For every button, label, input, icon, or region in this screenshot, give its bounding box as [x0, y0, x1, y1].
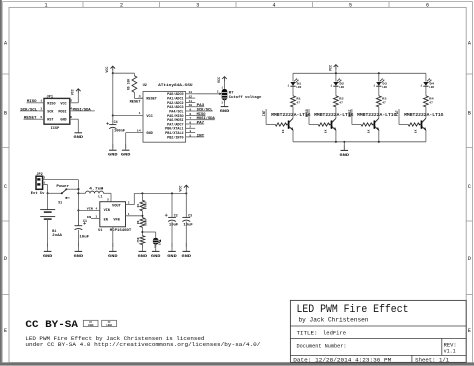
svg-text:C2: C2 — [174, 213, 178, 217]
svg-text:1M: 1M — [159, 241, 162, 245]
svg-text:LED: LED — [296, 86, 301, 89]
svg-text:GND: GND — [138, 255, 148, 259]
resistor R2 47 — [334, 96, 339, 107]
transistor Q1 MMBT2222A-LT1G — [271, 114, 311, 131]
svg-text:9: 9 — [189, 107, 191, 111]
wire PA0 to trimmer wiper — [195, 93, 219, 95]
LED D3 — [373, 78, 387, 89]
LED D2 — [330, 78, 344, 89]
node battery junction — [47, 192, 49, 194]
svg-text:1: 1 — [43, 181, 45, 184]
wire cell 3 anode — [378, 73, 380, 81]
wire to R5 — [113, 72, 135, 74]
svg-text:RESET: RESET — [24, 117, 37, 121]
svg-text:6: 6 — [70, 115, 72, 119]
svg-text:VCC: VCC — [180, 186, 184, 192]
ground (JP1) — [77, 129, 79, 133]
svg-text:1: 1 — [288, 85, 290, 88]
wire cell 2 collector — [335, 107, 337, 118]
wire cell 4 emitter — [425, 130, 427, 142]
svg-text:VIN: VIN — [104, 208, 110, 212]
wire JP1 VCC — [70, 102, 79, 104]
pin 3 — [39, 110, 44, 112]
wire + net label PA7 (cell 4) — [398, 109, 400, 125]
svg-text:ICSP: ICSP — [51, 127, 60, 131]
svg-text:S1: S1 — [58, 200, 62, 204]
pin 13 — [186, 93, 196, 95]
resistor R1 47 — [291, 96, 296, 107]
svg-text:ledFire: ledFire — [323, 329, 346, 336]
svg-text:75K: 75K — [137, 237, 140, 243]
wire + net label INT (cell 1) — [265, 109, 267, 125]
svg-text:VIN: VIN — [87, 207, 93, 211]
svg-text:INT: INT — [262, 110, 266, 116]
node VIN junction — [77, 209, 79, 211]
svg-text:976K: 976K — [144, 202, 147, 209]
svg-text:D: D — [4, 256, 7, 262]
wire C2 to ground — [171, 222, 173, 248]
wire battery drop — [47, 193, 49, 209]
svg-text:R7: R7 — [229, 91, 234, 95]
ground (U1) — [112, 243, 114, 252]
svg-text:PA7: PA7 — [197, 120, 205, 124]
power VCC (JP1) — [76, 89, 81, 91]
svg-text:1: 1 — [128, 213, 130, 216]
svg-text:C1: C1 — [83, 219, 87, 223]
svg-text:4.7uH: 4.7uH — [89, 187, 103, 191]
svg-text:1: 1 — [330, 85, 332, 88]
svg-text:3: 3 — [196, 2, 199, 8]
svg-text:VFB: VFB — [113, 218, 119, 222]
svg-text:LOGO: LOGO — [106, 324, 112, 327]
svg-text:LED: LED — [339, 86, 344, 89]
pin 10 — [186, 106, 196, 108]
wire to switch — [48, 192, 62, 194]
svg-text:ATtiny84A-SSU: ATtiny84A-SSU — [158, 83, 193, 88]
power VCC (trimmer) — [224, 81, 226, 89]
svg-text:R5 10K: R5 10K — [126, 79, 130, 91]
wire R4-R6 — [141, 211, 143, 218]
wire cell 3 collector — [378, 107, 380, 118]
wire rail to ground — [343, 142, 345, 150]
svg-text:MOSI: MOSI — [58, 110, 66, 114]
svg-text:U2: U2 — [143, 84, 147, 88]
wire L1 to SW pin — [104, 192, 112, 194]
ground (C4) — [112, 144, 114, 150]
wire trimmer to ground — [155, 245, 157, 247]
svg-text:2: 2 — [217, 91, 219, 94]
battery B1 2xAA — [40, 210, 63, 238]
svg-text:VCC: VCC — [106, 67, 110, 73]
trimmer R7 cutoff voltage — [219, 86, 261, 104]
wire + net label MOSI/SDA — [195, 119, 215, 121]
svg-text:5: 5 — [189, 133, 191, 137]
title block — [290, 300, 466, 363]
svg-text:RST: RST — [47, 119, 53, 123]
wire cell 4 collector — [425, 107, 427, 118]
svg-text:VCC: VCC — [72, 89, 76, 95]
svg-text:PB2/INT0: PB2/INT0 — [167, 135, 183, 139]
svg-text:10uF: 10uF — [169, 222, 179, 226]
svg-text:Sheet: 1/1: Sheet: 1/1 — [415, 356, 450, 363]
svg-text:E: E — [4, 328, 7, 334]
wire VCC rail down — [112, 73, 114, 115]
svg-text:VCC: VCC — [329, 65, 333, 71]
svg-text:4: 4 — [272, 2, 275, 8]
svg-text:EN: EN — [104, 218, 108, 222]
svg-text:1: 1 — [40, 99, 42, 103]
power VCC (LED rail) — [335, 68, 337, 73]
svg-text:Cutoff voltage: Cutoff voltage — [229, 95, 261, 100]
ground (divider) — [141, 243, 143, 252]
wire cell 2 led-resistor — [335, 86, 337, 96]
power VCC (boost output) — [185, 190, 187, 194]
wire emitter rail (LED return) — [293, 141, 426, 143]
svg-text:B: B — [4, 110, 7, 116]
svg-text:2: 2 — [120, 2, 123, 8]
wire cell 2 anode — [335, 73, 337, 81]
ground (trimmer R3) — [155, 243, 157, 252]
svg-text:LED PWM Fire Effect by Jack Ch: LED PWM Fire Effect by Jack Christensen … — [25, 336, 204, 342]
svg-text:1K: 1K — [325, 129, 328, 133]
wire R2 to ground — [141, 245, 143, 247]
switch S1 power — [56, 184, 69, 204]
connector JP1 ICSP header — [44, 95, 70, 130]
wire trimmer to ground — [224, 100, 226, 102]
pin 2 — [186, 127, 196, 129]
svg-text:LED PWM Fire Effect: LED PWM Fire Effect — [297, 304, 409, 316]
LED D4 — [420, 78, 434, 89]
svg-text:1: 1 — [373, 85, 375, 88]
pin 1 — [39, 102, 44, 104]
ground (C2) — [171, 243, 173, 252]
wire to trimmer R3 — [142, 231, 155, 233]
svg-text:LED: LED — [429, 86, 434, 89]
resistor base 1K (cell 3) — [361, 123, 372, 126]
svg-text:5: 5 — [40, 115, 42, 119]
transistor Q2 MMBT2222A-LT1G — [314, 114, 354, 131]
svg-text:1: 1 — [420, 85, 422, 88]
node VCC pin junction — [112, 114, 114, 116]
node rail junction 2 — [335, 72, 337, 74]
resistor R2 75K — [140, 236, 145, 245]
pin 8 — [186, 114, 196, 116]
svg-text:47: 47 — [382, 101, 386, 105]
wire + net label MOSI/SDA — [70, 110, 95, 112]
resistor R6 309K — [140, 218, 145, 228]
node divider top — [141, 192, 143, 194]
LED D1 — [288, 78, 302, 89]
svg-text:Date: 12/28/2014 4:23:36 PM: Date: 12/28/2014 4:23:36 PM — [293, 356, 391, 363]
capacitor C1 10uF — [77, 210, 79, 225]
svg-text:CC BY-SA: CC BY-SA — [25, 320, 78, 331]
svg-text:GND: GND — [151, 255, 161, 259]
svg-text:4: 4 — [139, 94, 141, 98]
svg-text:5: 5 — [349, 2, 352, 8]
svg-text:by Jack Christensen: by Jack Christensen — [299, 317, 369, 324]
power VCC (MCU) — [112, 71, 114, 74]
svg-text:1: 1 — [44, 2, 47, 8]
pin 5 — [39, 118, 44, 120]
svg-text:3: 3 — [96, 216, 98, 219]
resistor R3 47 — [376, 96, 381, 107]
pin 12 — [186, 97, 196, 99]
wire cell 4 led-resistor — [425, 86, 427, 96]
svg-text:14: 14 — [137, 128, 141, 132]
svg-text:C4: C4 — [114, 120, 118, 124]
wire C1 to ground — [77, 230, 79, 247]
svg-text:GND: GND — [60, 119, 66, 123]
node C2 junction — [171, 192, 173, 194]
wire + net label PA3 — [195, 106, 204, 108]
svg-text:VCC: VCC — [60, 102, 66, 106]
resistor R4 976K — [140, 200, 145, 211]
wire JP2 pin1 to battery — [43, 184, 48, 186]
ground (C3) — [185, 243, 187, 252]
svg-text:INT: INT — [197, 133, 205, 137]
svg-text:PA7: PA7 — [395, 110, 399, 116]
wire boost node vertical — [77, 189, 79, 226]
pin 3 (EN) stub — [91, 218, 100, 220]
svg-text:D: D — [468, 256, 471, 262]
wire C4 to ground — [112, 116, 114, 125]
node return junction 2 — [335, 141, 337, 143]
svg-text:VCC: VCC — [146, 115, 152, 119]
svg-text:GND: GND — [146, 132, 152, 136]
svg-text:1K: 1K — [368, 129, 371, 133]
svg-text:EN: EN — [87, 215, 91, 219]
wire cell 2 emitter — [335, 130, 337, 142]
wire + net label SCK/SCL — [20, 110, 39, 112]
ground (C1) — [77, 243, 79, 252]
svg-text:PA4/SCL: PA4/SCL — [169, 109, 183, 113]
svg-text:C3: C3 — [188, 213, 192, 217]
svg-text:R4: R4 — [137, 204, 140, 208]
wire + net label SCK/SCL — [195, 110, 212, 112]
wire U2 GND pin — [126, 132, 143, 134]
svg-text:2: 2 — [43, 176, 45, 179]
wire cell 1 led-resistor — [292, 86, 294, 96]
pin 3 — [186, 132, 196, 134]
resistor base 1K (cell 2) — [318, 123, 329, 126]
svg-text:GND: GND — [220, 110, 230, 114]
inductor L1 4.7uH — [86, 187, 104, 199]
wire JP2 pin2 to boost node — [43, 179, 79, 181]
wire VIN — [78, 209, 99, 211]
node lower divider — [141, 231, 143, 233]
transistor Q4 MMBT2222A-LT1G — [404, 114, 444, 131]
svg-text:1: 1 — [139, 111, 141, 115]
svg-text:SCK/SCL: SCK/SCL — [197, 107, 213, 111]
resistor base 1K (cell 4) — [408, 123, 419, 126]
svg-text:6: 6 — [426, 2, 429, 8]
svg-text:LOGO: LOGO — [88, 324, 94, 327]
svg-text:v1.1: v1.1 — [444, 349, 456, 355]
wire switch to boost node — [66, 188, 78, 190]
svg-text:under CC BY-SA 4.0 http://crea: under CC BY-SA 4.0 http://creativecommon… — [25, 342, 260, 348]
svg-text:3: 3 — [40, 107, 42, 111]
pin 1 (VFB) wire — [126, 215, 143, 217]
svg-text:LED: LED — [382, 86, 387, 89]
wire cell 4 anode — [425, 73, 427, 81]
svg-text:U1: U1 — [98, 229, 102, 233]
svg-text:RESET: RESET — [130, 100, 141, 104]
pin 11 — [186, 101, 196, 103]
wire battery to ground — [47, 219, 49, 247]
svg-text:5: 5 — [107, 199, 109, 202]
node L1 junction — [77, 192, 79, 194]
wire divider drop — [141, 193, 143, 200]
resistor R5 10K — [132, 76, 137, 93]
svg-text:A: A — [4, 40, 7, 46]
node VCC junction — [112, 72, 114, 74]
svg-text:L1: L1 — [98, 195, 102, 199]
ground (trimmer) — [224, 98, 226, 107]
pin 6 — [186, 123, 196, 125]
wire + net label MOSI (cell 3) — [351, 109, 353, 125]
svg-text:47: 47 — [429, 101, 433, 105]
node rail junction 3 — [378, 72, 380, 74]
svg-text:GND: GND — [182, 255, 192, 259]
svg-text:MISO: MISO — [47, 102, 55, 106]
svg-text:GND: GND — [108, 154, 118, 158]
ground (U2) — [125, 144, 127, 150]
svg-text:MOSI: MOSI — [348, 109, 352, 117]
svg-text:TITLE:: TITLE: — [297, 329, 318, 336]
svg-text:10uF: 10uF — [79, 235, 89, 239]
svg-text:1K: 1K — [282, 129, 285, 133]
svg-text:SCK: SCK — [47, 110, 54, 114]
svg-text:47: 47 — [339, 101, 343, 105]
wire U1 GND pin — [112, 227, 114, 247]
wire C3 to ground — [185, 222, 187, 248]
svg-text:GND: GND — [121, 154, 131, 158]
connector JP2 ext 5V — [31, 173, 46, 196]
svg-text:GND: GND — [167, 255, 177, 259]
svg-text:4: 4 — [96, 207, 98, 210]
svg-text:GND: GND — [43, 255, 53, 259]
trimmer R3 — [153, 238, 162, 248]
node return junction 3 — [378, 141, 380, 143]
svg-text:GND: GND — [74, 255, 84, 259]
svg-text:VOUT: VOUT — [112, 204, 121, 208]
pin 5 — [186, 136, 196, 138]
svg-text:309K: 309K — [144, 219, 147, 226]
svg-text:GND: GND — [108, 255, 118, 259]
resistor base 1K (cell 1) — [275, 123, 286, 126]
ground (LED rail) — [343, 146, 345, 151]
svg-text:GND: GND — [74, 136, 84, 140]
svg-text:MISO: MISO — [305, 109, 309, 117]
wire cell 3 emitter — [378, 130, 380, 142]
wire + net label MISO — [27, 102, 39, 104]
svg-text:R6: R6 — [137, 220, 140, 224]
wire cell 3 led-resistor — [378, 86, 380, 96]
svg-text:Power: Power — [56, 184, 69, 189]
wire to L1 — [78, 192, 85, 194]
mcu U2 ATtiny84A-SSU — [143, 83, 194, 142]
svg-text:VCC: VCC — [218, 77, 222, 83]
capacitor C2 10uF — [171, 193, 173, 217]
svg-text:MMBT2222A-LT1G: MMBT2222A-LT1G — [404, 114, 444, 118]
pin 9 — [186, 110, 196, 112]
wire + net label INT — [195, 136, 204, 138]
svg-text:47: 47 — [296, 101, 300, 105]
svg-text:10uF: 10uF — [183, 222, 193, 226]
wire R6 down — [141, 227, 143, 235]
svg-text:2: 2 — [128, 202, 130, 205]
wire + net label PA7 — [195, 123, 204, 125]
wire R5 to RESET pin — [133, 92, 135, 98]
node boost top — [77, 188, 79, 190]
svg-text:RESET: RESET — [146, 97, 157, 101]
svg-text:MISO: MISO — [27, 100, 37, 104]
svg-text:2: 2 — [70, 99, 72, 103]
pin 7 — [186, 119, 196, 121]
svg-text:REV:: REV: — [444, 342, 457, 348]
wire + net label RESET — [24, 118, 39, 120]
resistor R4 47 — [424, 96, 429, 107]
wire VCC to U2 pin1 — [113, 115, 143, 117]
svg-text:MMBT2222A-LT1G: MMBT2222A-LT1G — [357, 114, 397, 118]
svg-text:E: E — [468, 328, 471, 334]
wire JP1 GND — [70, 118, 79, 120]
license CC BY-SA note — [25, 320, 260, 348]
svg-text:GND: GND — [340, 154, 350, 158]
wire cell 1 anode — [292, 73, 294, 81]
svg-text:1K: 1K — [415, 129, 418, 133]
wire + net label MISO — [195, 114, 205, 116]
wire VCC rail (LED supply) — [293, 72, 426, 74]
wire + net label MISO (cell 2) — [308, 109, 310, 125]
ground (battery) — [47, 243, 49, 252]
capacitor C3 10uF — [185, 193, 187, 217]
capacitor C4 100nF — [106, 123, 109, 125]
wire VOUT to rail — [126, 204, 135, 206]
svg-text:C: C — [468, 184, 471, 190]
wire cell 1 collector — [292, 107, 294, 118]
wire cell 1 emitter — [292, 130, 294, 142]
pin 4 (RESET) — [138, 97, 143, 99]
node VFB junction — [141, 215, 143, 217]
svg-text:A: A — [468, 40, 471, 46]
svg-text:B: B — [468, 110, 471, 116]
svg-text:2xAA: 2xAA — [52, 234, 63, 238]
svg-text:SCK/SCL: SCK/SCL — [20, 107, 37, 112]
transistor Q3 MMBT2222A-LT1G — [357, 114, 397, 131]
svg-text:Document Number:: Document Number: — [297, 343, 347, 350]
svg-text:MOSI/SDA: MOSI/SDA — [73, 107, 92, 112]
svg-text:C: C — [4, 184, 7, 190]
svg-text:100nF: 100nF — [114, 129, 125, 133]
svg-text:Ext 5v: Ext 5v — [31, 192, 46, 196]
node C3 junction — [185, 192, 187, 194]
regulator U1 MCP1640 — [98, 199, 131, 233]
